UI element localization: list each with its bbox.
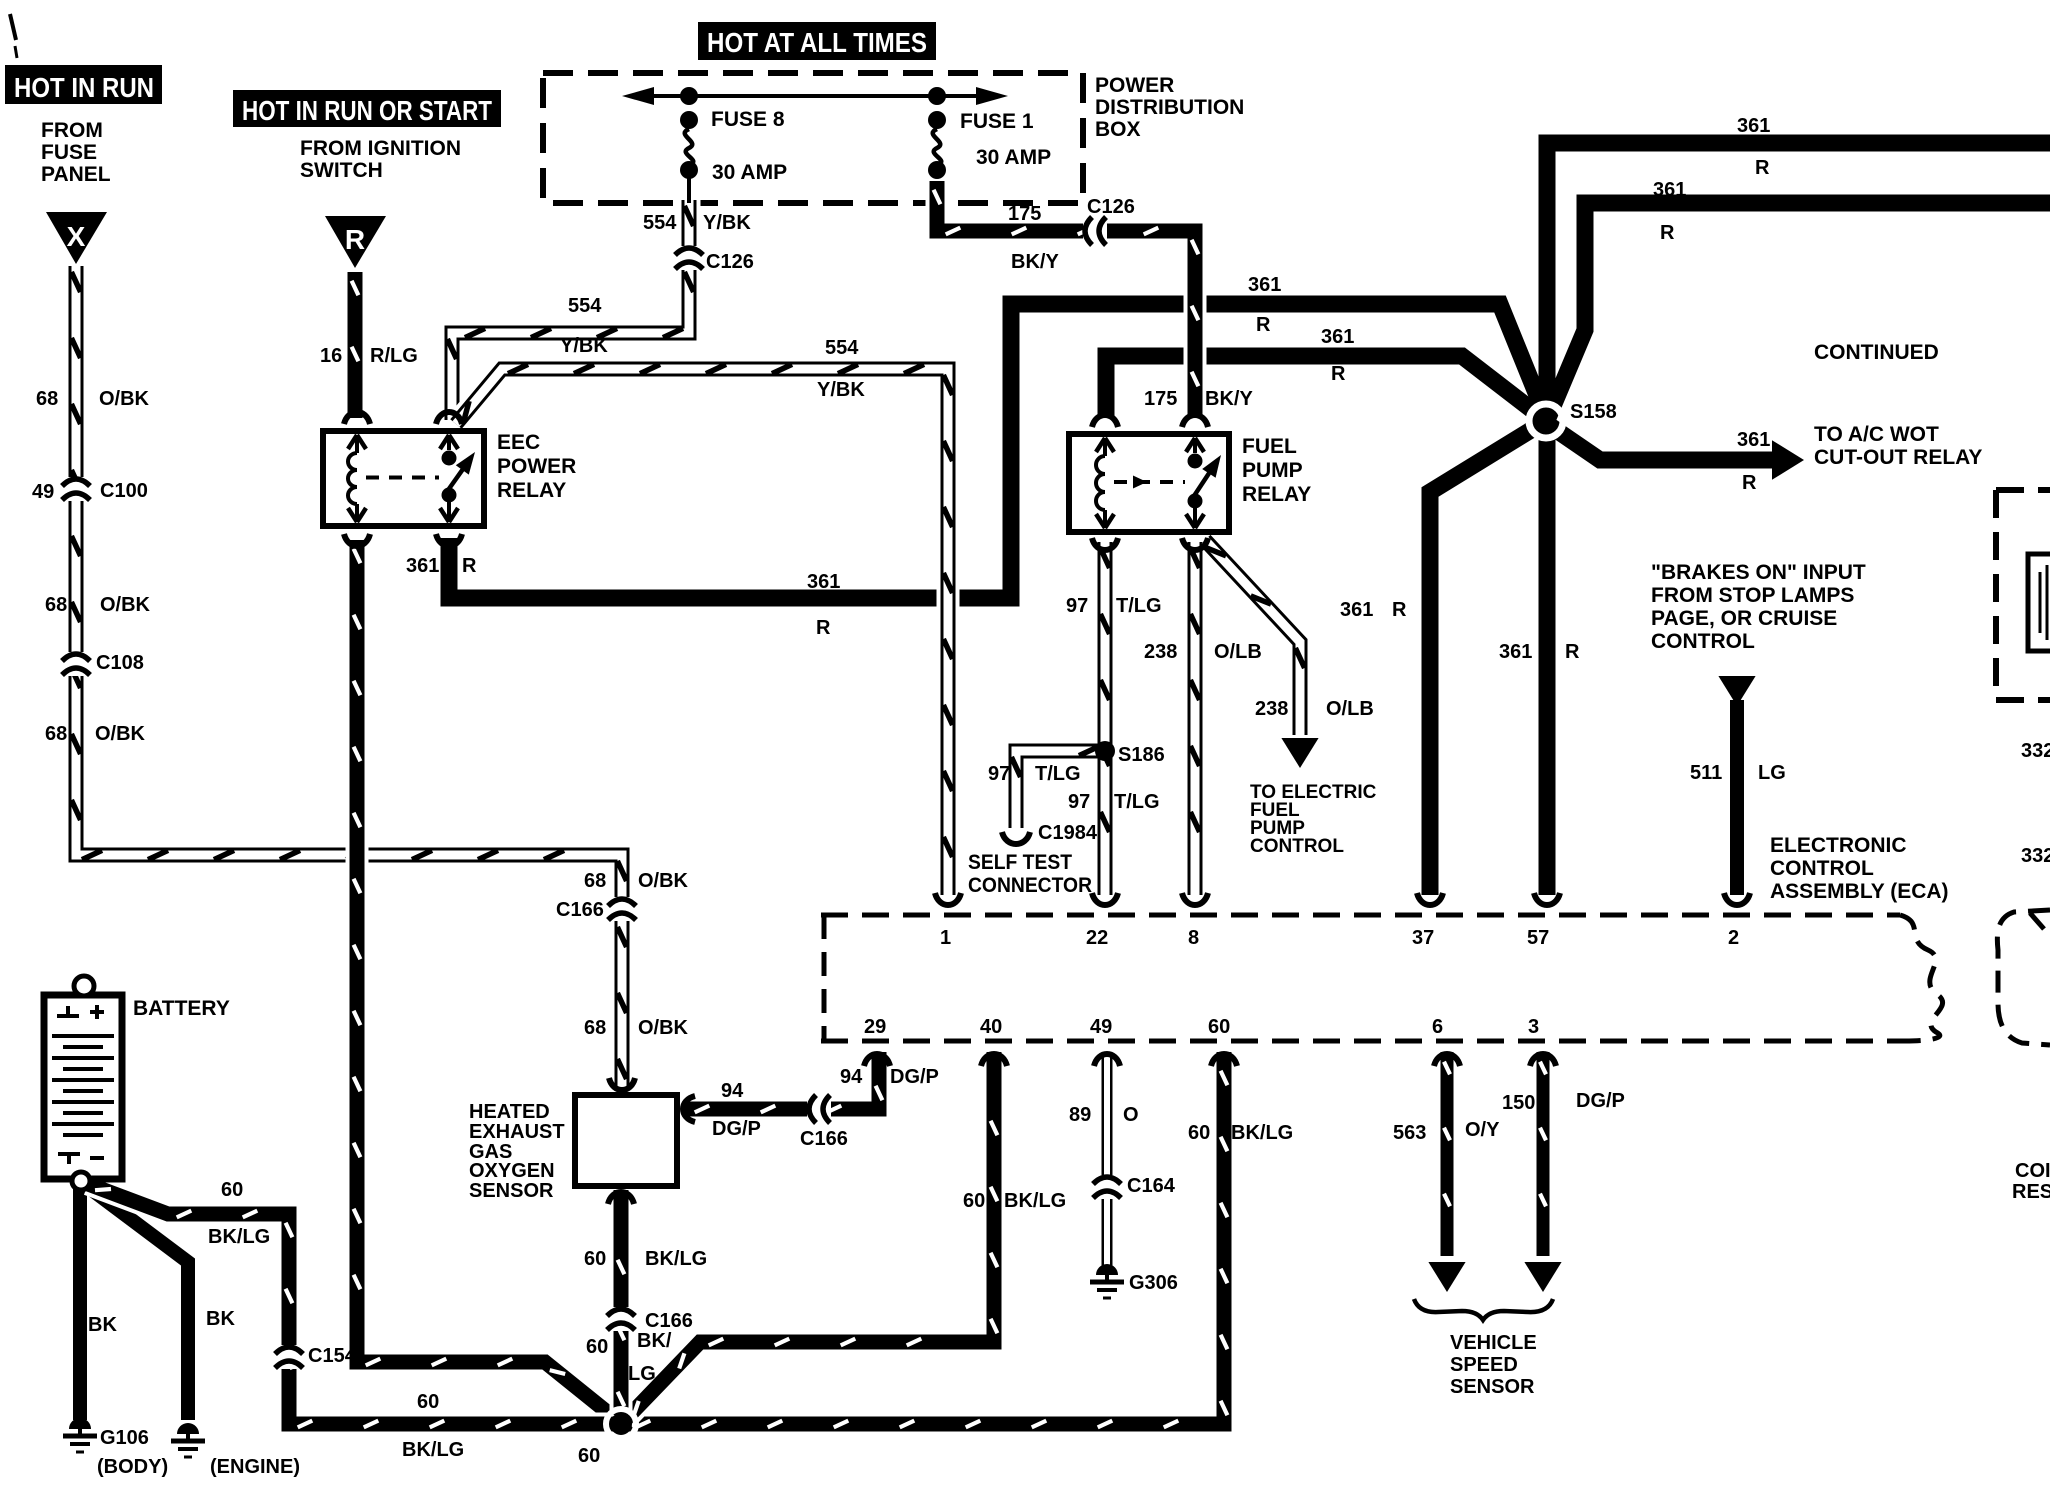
wire 554 Y/BK EEC relay to ECA pin 1 [456, 364, 953, 895]
svg-text:O: O [1123, 1104, 1139, 1126]
connector C126 on 175 wire [1083, 217, 1107, 245]
svg-text:C1984: C1984 [1038, 822, 1098, 844]
label 68 O/BK second [45, 594, 151, 616]
svg-text:30 AMP: 30 AMP [712, 161, 787, 184]
partial component inside top right box [2028, 554, 2050, 651]
svg-text:BATTERY: BATTERY [133, 997, 230, 1020]
svg-text:S186: S186 [1118, 744, 1165, 766]
HEGO output terminal [683, 1096, 695, 1122]
svg-text:94: 94 [840, 1066, 863, 1088]
label 175 BK/Y vertical [1144, 388, 1253, 410]
svg-text:175: 175 [1144, 388, 1177, 410]
svg-text:R: R [462, 555, 477, 577]
label ECA pin 8 [1188, 927, 1199, 949]
svg-text:2: 2 [1728, 927, 1739, 949]
svg-text:49: 49 [32, 481, 54, 503]
svg-text:CONTROL: CONTROL [1651, 630, 1755, 653]
svg-text:175: 175 [1008, 203, 1041, 225]
label ECA pin 22 [1086, 927, 1108, 949]
svg-text:RES: RES [2012, 1181, 2050, 1203]
label 68 O/BK fourth [584, 870, 689, 892]
svg-text:HOT IN RUN OR START: HOT IN RUN OR START [242, 95, 492, 126]
svg-text:57: 57 [1527, 927, 1549, 949]
banner HOT IN RUN [5, 65, 162, 104]
svg-text:22: 22 [1086, 927, 1108, 949]
connector C126 on 554 wire [675, 246, 703, 270]
fuse 1 [928, 87, 946, 179]
svg-text:361: 361 [1653, 179, 1686, 201]
svg-text:FROM: FROM [41, 119, 103, 142]
label 60 BK/LG battery [208, 1179, 270, 1248]
svg-text:C166: C166 [800, 1128, 848, 1150]
page connector R from ignition switch [325, 216, 386, 268]
label ECA pin 40 [980, 1016, 1002, 1038]
connector C164 [1093, 1175, 1121, 1199]
svg-text:68: 68 [45, 594, 67, 616]
label C100 [100, 480, 148, 502]
label 60 at junction [578, 1445, 600, 1467]
label S158 [1570, 401, 1617, 423]
label S186 [1118, 744, 1165, 766]
svg-text:97: 97 [988, 763, 1010, 785]
label to electric fuel pump control [1250, 782, 1377, 857]
wire 60 BK/LG junction to ECA pin 60 [627, 1052, 1227, 1427]
svg-text:361: 361 [1321, 326, 1354, 348]
ground G106 (body) [63, 1418, 97, 1452]
svg-text:(ENGINE): (ENGINE) [210, 1456, 300, 1478]
wire 60 BK/LG HEGO sensor to junction [618, 1190, 625, 1415]
wire 361 R second (to continued page) [1548, 203, 2050, 418]
svg-text:POWER: POWER [497, 455, 576, 478]
svg-text:37: 37 [1412, 927, 1434, 949]
svg-text:T/LG: T/LG [1116, 595, 1162, 617]
svg-text:SWITCH: SWITCH [300, 159, 383, 182]
label power distribution box [1095, 74, 1244, 141]
svg-text:R: R [816, 617, 831, 639]
power distribution box (dashed) [543, 73, 1083, 203]
label engine ground [210, 1456, 300, 1478]
svg-text:BK/LG: BK/LG [645, 1248, 707, 1270]
svg-text:6: 6 [1432, 1016, 1443, 1038]
wire 94 DG/P HEGO sensor via C166 to ECA pin 29 [686, 1052, 882, 1112]
svg-text:Y/BK: Y/BK [703, 212, 751, 234]
wire BK battery to G106 body ground [73, 1184, 87, 1420]
label ECA pin 1 [940, 927, 951, 949]
svg-text:SELF TEST: SELF TEST [968, 851, 1072, 874]
label 361 R eec output [406, 555, 477, 577]
svg-text:O/BK: O/BK [99, 388, 150, 410]
wire 238 O/LB fuel pump relay to ECA pin 8 [1190, 542, 1199, 895]
svg-text:SENSOR: SENSOR [1450, 1376, 1535, 1398]
connector C1984 terminal [1002, 832, 1030, 844]
fuse 8 [680, 87, 698, 203]
svg-text:C166: C166 [556, 899, 604, 921]
svg-text:(BODY): (BODY) [97, 1456, 168, 1478]
svg-text:R/LG: R/LG [370, 345, 418, 367]
label 332 upper [2021, 740, 2050, 762]
svg-text:554: 554 [643, 212, 677, 234]
svg-text:C100: C100 [100, 480, 148, 502]
svg-text:OXYGEN: OXYGEN [469, 1160, 555, 1182]
label C166 second [800, 1128, 848, 1150]
label to A/C WOT cut-out relay [1814, 423, 1982, 469]
svg-text:CONTINUED: CONTINUED [1814, 341, 1939, 364]
label partial COIL RES [2012, 1160, 2050, 1203]
svg-text:O/BK: O/BK [638, 870, 689, 892]
wire 175 BK/Y fuse 1 via C126 to fuel pump relay [934, 181, 1199, 418]
svg-text:RELAY: RELAY [1242, 483, 1311, 506]
connector C108 [62, 652, 90, 676]
svg-text:R: R [1755, 157, 1770, 179]
label 94 DG/P right [840, 1066, 939, 1088]
connector C166 on 60 wire [607, 1307, 635, 1331]
label 16 R/LG [320, 345, 418, 367]
label 68 O/BK third [45, 723, 146, 745]
svg-text:1: 1 [940, 927, 951, 949]
wire 89 O from ECA pin 49 to G306 [1102, 1052, 1113, 1268]
label C166 third [645, 1310, 693, 1332]
label electronic control assembly [1770, 834, 1949, 903]
svg-text:PAGE, OR CRUISE: PAGE, OR CRUISE [1651, 607, 1837, 630]
label G306 [1129, 1272, 1178, 1294]
svg-text:361: 361 [1737, 115, 1770, 137]
label 361 R second line [1653, 179, 1686, 244]
svg-text:60: 60 [1188, 1122, 1210, 1144]
svg-text:PANEL: PANEL [41, 163, 111, 186]
svg-text:Y/BK: Y/BK [817, 379, 865, 401]
label C166 first [556, 899, 604, 921]
svg-text:HEATED: HEATED [469, 1101, 550, 1123]
label 60 BK/LG below C166 [586, 1330, 672, 1385]
svg-text:554: 554 [568, 295, 602, 317]
svg-text:CONNECTOR: CONNECTOR [968, 874, 1092, 897]
wire 60 BK/LG junction to ECA pin 40 [625, 1052, 997, 1420]
svg-text:BK/LG: BK/LG [1231, 1122, 1293, 1144]
wire 60 BK/LG battery to C154 to junction [88, 1184, 615, 1427]
wire 150 DG/P ECA pin 3 to vehicle speed sensor [1524, 1052, 1561, 1292]
svg-text:T/LG: T/LG [1035, 763, 1081, 785]
banner HOT IN RUN OR START [233, 90, 501, 127]
svg-text:EEC: EEC [497, 431, 540, 454]
wire 361 R top (to continued page) [1547, 143, 2050, 895]
svg-text:C166: C166 [645, 1310, 693, 1332]
wire 97 T/LG fuel pump relay to ECA pin 22 [1100, 542, 1109, 895]
label C126 horizontal [1087, 196, 1135, 218]
svg-text:O/LB: O/LB [1214, 641, 1262, 663]
svg-text:R: R [1660, 222, 1675, 244]
label EEC power relay [497, 431, 576, 502]
label 361 R long run [807, 571, 840, 639]
wire 361 R from S158 to A/C WOT cut-out relay [1546, 423, 1804, 480]
svg-text:FROM STOP LAMPS: FROM STOP LAMPS [1651, 584, 1854, 607]
label ECA pin 57 [1527, 927, 1549, 949]
svg-text:CONTROL: CONTROL [1250, 836, 1344, 857]
label BK body [88, 1314, 117, 1336]
svg-text:POWER: POWER [1095, 74, 1174, 97]
label fuse 8 [711, 108, 787, 184]
svg-text:PUMP: PUMP [1242, 459, 1303, 482]
label 97 T/LG upper [1066, 595, 1162, 617]
svg-text:97: 97 [1068, 791, 1090, 813]
label 60 BK/LG pin60 [1188, 1122, 1293, 1144]
label 94 DG/P left [712, 1080, 761, 1140]
label 60 BK/LG pin40 [963, 1190, 1066, 1212]
svg-text:16: 16 [320, 345, 342, 367]
svg-text:3: 3 [1528, 1016, 1539, 1038]
svg-text:C154: C154 [308, 1345, 357, 1367]
label ECA pin 37 [1412, 927, 1434, 949]
svg-text:COI: COI [2015, 1160, 2050, 1182]
banner HOT AT ALL TIMES [698, 22, 936, 60]
svg-text:FUSE: FUSE [41, 141, 97, 164]
svg-text:DG/P: DG/P [890, 1066, 939, 1088]
wire 554 Y/BK fuse 8 to EEC power relay [447, 200, 693, 420]
battery [44, 976, 122, 1190]
svg-text:LG: LG [628, 1363, 656, 1385]
svg-text:60: 60 [221, 1179, 243, 1201]
label 361 R top line [1737, 115, 1770, 179]
svg-text:60: 60 [586, 1336, 608, 1358]
label 554 Y/BK vertical [643, 212, 751, 234]
label C1984 [1038, 822, 1098, 844]
wire 361 R from EEC power relay to splice S158 [449, 304, 1547, 598]
svg-text:ELECTRONIC: ELECTRONIC [1770, 834, 1907, 857]
label 238 O/LB lower [1255, 698, 1374, 720]
wire 16 R/LG from ignition switch to EEC relay [352, 272, 359, 418]
svg-text:R: R [1256, 314, 1271, 336]
svg-text:C126: C126 [706, 251, 754, 273]
label brakes on input [1651, 561, 1866, 653]
label ECA pin 3 [1528, 1016, 1539, 1038]
svg-text:T/LG: T/LG [1114, 791, 1160, 813]
svg-text:361: 361 [807, 571, 840, 593]
svg-text:HOT AT ALL TIMES: HOT AT ALL TIMES [707, 27, 927, 58]
label 89 O [1069, 1104, 1139, 1126]
svg-text:361: 361 [1248, 274, 1281, 296]
svg-text:332: 332 [2021, 740, 2050, 762]
svg-text:RELAY: RELAY [497, 479, 566, 502]
label 97 T/LG branch [988, 763, 1081, 785]
wire 238 O/LB to electric fuel pump control [1205, 540, 1319, 768]
label ECA pin 6 [1432, 1016, 1443, 1038]
svg-text:60: 60 [963, 1190, 985, 1212]
HEGO bottom terminal [608, 1192, 634, 1204]
wire 361 R to fuel pump relay coil [1106, 356, 1545, 420]
svg-text:68: 68 [584, 1017, 606, 1039]
svg-text:68: 68 [45, 723, 67, 745]
svg-text:BK/LG: BK/LG [208, 1226, 270, 1248]
label 554 Y/BK second horizontal [817, 337, 865, 401]
label ECA pin 29 [864, 1016, 886, 1038]
svg-text:C164: C164 [1127, 1175, 1176, 1197]
label 361 R to AC relay [1737, 429, 1770, 494]
svg-text:ASSEMBLY (ECA): ASSEMBLY (ECA) [1770, 880, 1949, 903]
connector C100 [62, 477, 90, 501]
svg-text:511: 511 [1690, 762, 1722, 784]
partial dashed connector at right edge [1997, 910, 2050, 1045]
svg-text:O/BK: O/BK [638, 1017, 689, 1039]
svg-text:O/LB: O/LB [1326, 698, 1374, 720]
wire 97 T/LG branch to self test connector [1011, 746, 1105, 828]
svg-text:CONTROL: CONTROL [1770, 857, 1874, 880]
relay EEC power relay [323, 431, 484, 526]
svg-text:BK/Y: BK/Y [1205, 388, 1253, 410]
bus arrow line in power box [622, 87, 1008, 105]
wire BK battery to engine ground [84, 1184, 188, 1420]
svg-text:BK/LG: BK/LG [1004, 1190, 1066, 1212]
svg-text:94: 94 [721, 1080, 744, 1102]
relay fuel pump relay [1069, 434, 1229, 532]
connector C154 [275, 1345, 303, 1369]
svg-text:R: R [1565, 641, 1580, 663]
svg-text:HOT IN RUN: HOT IN RUN [14, 72, 154, 103]
ground G306 [1090, 1264, 1124, 1298]
heated exhaust gas oxygen sensor box [575, 1095, 677, 1186]
label 68 O/BK first [36, 388, 150, 410]
svg-text:563: 563 [1393, 1122, 1426, 1144]
label ECA pin 60 [1208, 1016, 1230, 1038]
wire 68 O/BK from fuse panel (X) to C166/HEGO [71, 266, 626, 1090]
svg-text:VEHICLE: VEHICLE [1450, 1332, 1537, 1354]
ECA top row pin terminals [935, 893, 1750, 905]
label 361 R line3 [1248, 274, 1281, 336]
svg-text:C108: C108 [96, 652, 144, 674]
svg-text:SENSOR: SENSOR [469, 1180, 554, 1202]
svg-text:FUSE 8: FUSE 8 [711, 108, 785, 131]
wire 563 O/Y ECA pin 6 to vehicle speed sensor [1428, 1052, 1465, 1292]
svg-text:DG/P: DG/P [1576, 1090, 1625, 1112]
svg-text:332: 332 [2021, 845, 2050, 867]
fuel pump relay pin hooks [1092, 415, 1208, 550]
svg-text:FUSE 1: FUSE 1 [960, 110, 1034, 133]
svg-text:O/BK: O/BK [95, 723, 146, 745]
wire 60 BK/LG EEC relay to splice junction [354, 540, 617, 1420]
svg-text:S158: S158 [1570, 401, 1617, 423]
svg-text:8: 8 [1188, 927, 1199, 949]
svg-text:68: 68 [584, 870, 606, 892]
svg-text:60: 60 [584, 1248, 606, 1270]
partial dashed box top right [1996, 490, 2050, 700]
svg-text:361: 361 [1737, 429, 1770, 451]
label HEGO sensor [469, 1101, 565, 1202]
splice S186 [1095, 741, 1115, 761]
label self test connector [968, 851, 1092, 897]
label 361 R to pin 57 [1499, 641, 1580, 663]
svg-text:DISTRIBUTION: DISTRIBUTION [1095, 96, 1244, 119]
label C164 [1127, 1175, 1176, 1197]
label 563 O/Y [1393, 1119, 1500, 1144]
svg-text:R: R [345, 224, 365, 255]
svg-text:G106: G106 [100, 1427, 149, 1449]
svg-text:BOX: BOX [1095, 118, 1141, 141]
label 49 [32, 481, 54, 503]
svg-text:R: R [1742, 472, 1757, 494]
label 361 R to pin 37 [1340, 599, 1407, 621]
svg-text:40: 40 [980, 1016, 1002, 1038]
label 554 Y/BK first horizontal [560, 295, 608, 357]
svg-text:CUT-OUT RELAY: CUT-OUT RELAY [1814, 446, 1982, 469]
label C154 [308, 1345, 357, 1367]
label 60 BK/LG above C166 [584, 1248, 707, 1270]
ground (engine) [171, 1423, 205, 1457]
splice S158 node [1529, 404, 1563, 438]
svg-text:68: 68 [36, 388, 58, 410]
svg-text:C126: C126 [1087, 196, 1135, 218]
label 150 DG/P [1502, 1090, 1625, 1114]
label vehicle speed sensor [1450, 1332, 1537, 1398]
svg-text:BK: BK [88, 1314, 117, 1336]
svg-text:BK/LG: BK/LG [402, 1439, 464, 1461]
label continued [1814, 341, 1939, 364]
svg-text:361: 361 [1340, 599, 1373, 621]
svg-text:SPEED: SPEED [1450, 1354, 1518, 1376]
svg-text:361: 361 [406, 555, 439, 577]
label 97 T/LG lower [1068, 791, 1160, 813]
svg-text:60: 60 [578, 1445, 600, 1467]
svg-text:89: 89 [1069, 1104, 1091, 1126]
label 68 O/BK fifth [584, 1017, 689, 1039]
svg-text:60: 60 [417, 1391, 439, 1413]
label 332 lower [2021, 845, 2050, 867]
svg-text:BK/Y: BK/Y [1011, 251, 1059, 273]
label 175 BK/Y horizontal [1008, 203, 1059, 273]
label G106 body [97, 1427, 168, 1478]
svg-text:Y/BK: Y/BK [560, 335, 608, 357]
svg-text:G306: G306 [1129, 1272, 1178, 1294]
svg-text:238: 238 [1255, 698, 1288, 720]
svg-text:R: R [1392, 599, 1407, 621]
label ECA pin 2 [1728, 927, 1739, 949]
svg-text:60: 60 [1208, 1016, 1230, 1038]
connector C166 on 68 wire [608, 897, 636, 921]
svg-text:150: 150 [1502, 1092, 1535, 1114]
svg-text:BK: BK [206, 1308, 235, 1330]
svg-text:O/Y: O/Y [1465, 1119, 1500, 1141]
label 361 R line4 [1321, 326, 1354, 385]
label C126 vertical [706, 251, 754, 273]
svg-text:O/BK: O/BK [100, 594, 151, 616]
svg-text:554: 554 [825, 337, 859, 359]
stray scan mark [10, 14, 17, 58]
svg-text:238: 238 [1144, 641, 1177, 663]
svg-text:29: 29 [864, 1016, 886, 1038]
connector C166 on 94 wire [807, 1095, 831, 1123]
svg-text:97: 97 [1066, 595, 1088, 617]
HEGO top terminal [609, 1078, 635, 1090]
page connector X from fuse panel [46, 212, 107, 264]
label C108 [96, 652, 144, 674]
label fuel pump relay [1242, 435, 1311, 506]
label battery [133, 997, 230, 1020]
svg-text:DG/P: DG/P [712, 1118, 761, 1140]
label 511 LG [1690, 762, 1786, 784]
svg-text:361: 361 [1499, 641, 1532, 663]
label fuse 1 [960, 110, 1051, 169]
svg-text:FUEL: FUEL [1242, 435, 1297, 458]
svg-text:FROM IGNITION: FROM IGNITION [300, 137, 461, 160]
svg-text:EXHAUST: EXHAUST [469, 1121, 565, 1143]
ECA bottom row pin terminals [864, 1054, 1556, 1066]
wire 511 LG from brakes-on input to ECA pin 2 [1718, 676, 1755, 895]
svg-text:X: X [67, 221, 86, 252]
splice junction 60 BK/LG [606, 1409, 636, 1439]
wire 361 R from S158 to ECA pin 37 [1430, 422, 1544, 895]
svg-text:"BRAKES ON" INPUT: "BRAKES ON" INPUT [1651, 561, 1866, 584]
label from fuse panel [41, 119, 111, 186]
svg-text:49: 49 [1090, 1016, 1112, 1038]
svg-text:TO A/C WOT: TO A/C WOT [1814, 423, 1939, 446]
label ECA pin 49 [1090, 1016, 1112, 1038]
